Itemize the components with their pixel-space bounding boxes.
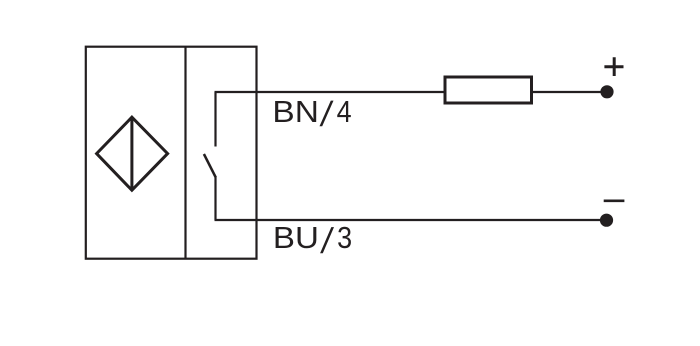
sensor symbol diamond: [97, 117, 168, 190]
sensor symbol diamond vertical line: [130, 117, 133, 190]
sensor body outline: [86, 47, 257, 259]
load resistor: [445, 77, 532, 103]
wire BU/3 bottom: [215, 219, 603, 221]
sensor body divider: [184, 47, 186, 259]
minus sign: [604, 200, 625, 203]
switch blade: [204, 154, 216, 178]
terminal dot minus: [600, 214, 613, 227]
wire BN/4 top: [215, 91, 603, 93]
svg-text:4: 4: [337, 94, 352, 129]
svg-text:3: 3: [337, 220, 352, 255]
switch fixed contact: [214, 92, 216, 147]
plus sign: [604, 57, 623, 76]
label BU/3 slash: [320, 227, 334, 253]
svg-text:BN: BN: [272, 94, 319, 129]
svg-text:BU: BU: [273, 220, 319, 255]
terminal dot plus: [600, 85, 613, 98]
label BN/4 slash: [320, 101, 334, 127]
switch lower lead: [214, 177, 216, 220]
